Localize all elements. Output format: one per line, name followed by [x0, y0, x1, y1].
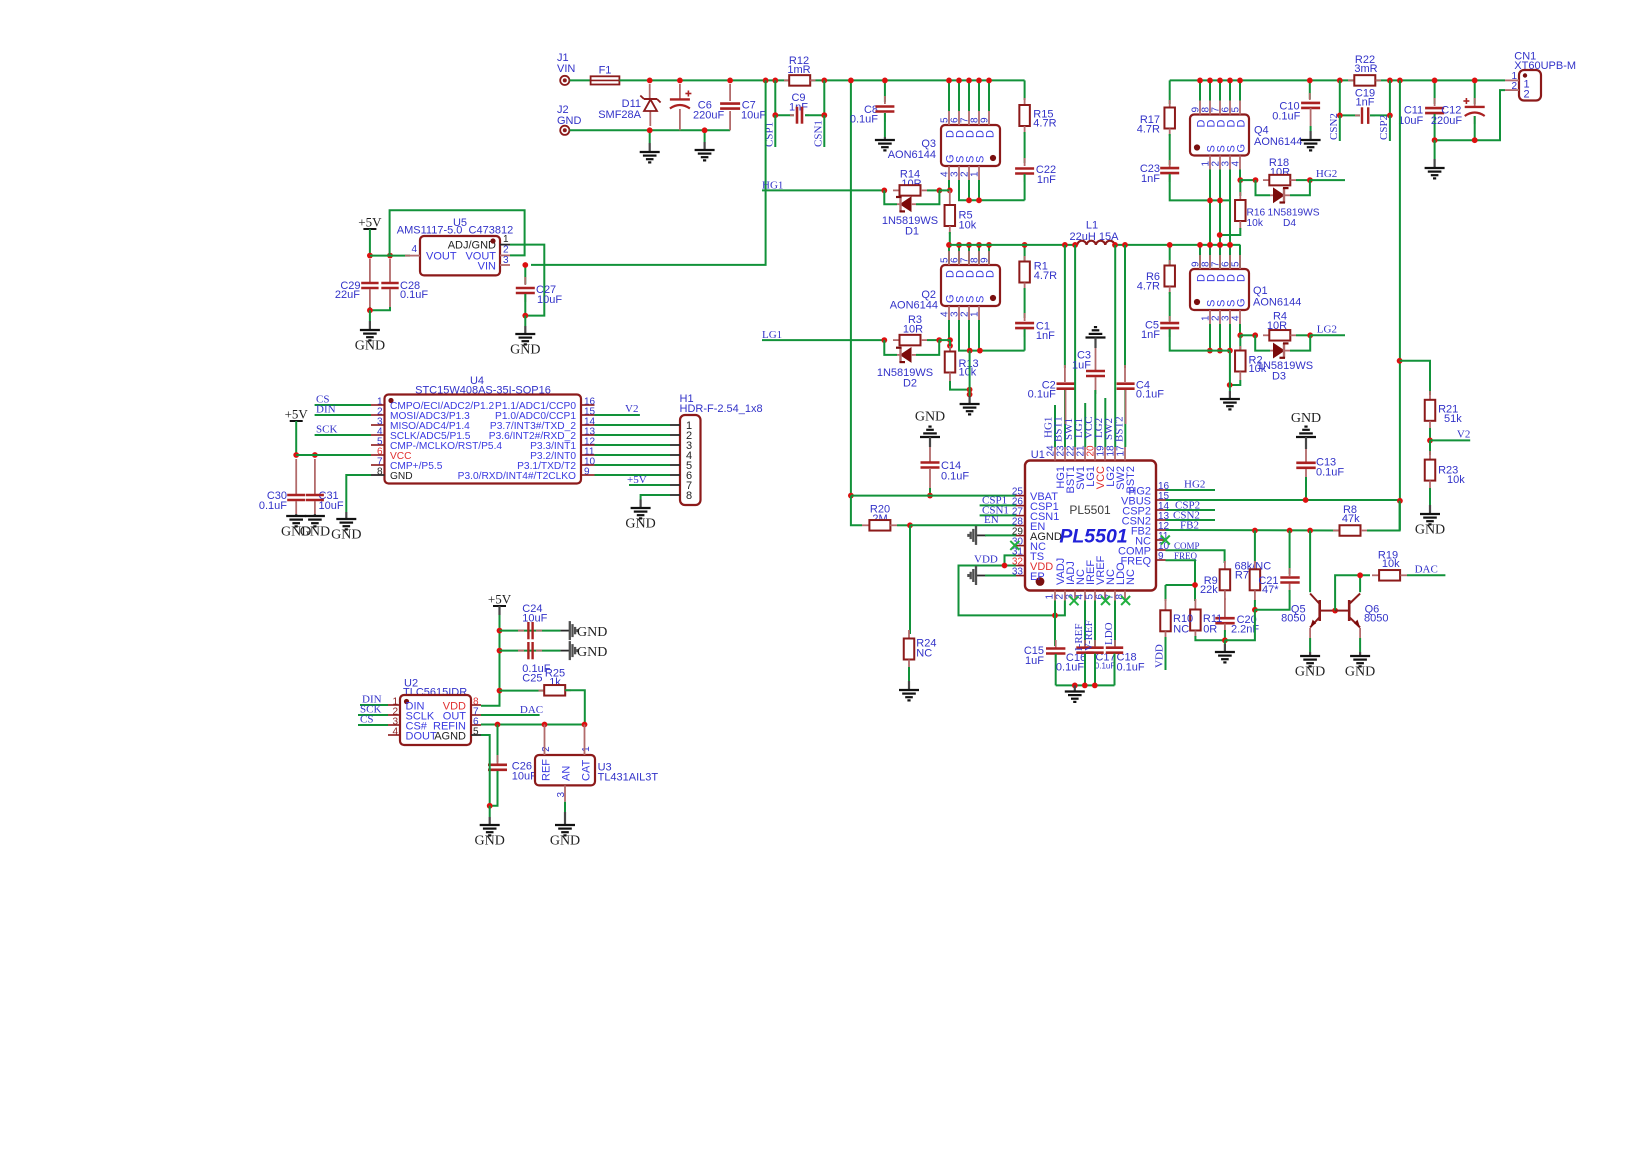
wires Q4 drains to VOUT rail	[1199, 80, 1201, 100]
svg-text:U1: U1	[1031, 449, 1045, 461]
net label CSN2 (U1)	[1166, 509, 1216, 521]
junction L1 left/C2	[1062, 242, 1068, 248]
svg-text:GND: GND	[1295, 665, 1325, 680]
wire CSP1 column	[774, 80, 776, 115]
capacitor C7 10uF	[720, 84, 766, 130]
svg-text:EP: EP	[1030, 571, 1045, 583]
svg-text:1uF: 1uF	[1025, 655, 1044, 667]
resistor R17 4.7R	[1137, 80, 1175, 136]
ground below C31	[300, 514, 330, 540]
svg-text:4.7R: 4.7R	[1033, 118, 1056, 130]
net label HG1	[762, 180, 884, 192]
junction VOUT/C12	[1472, 78, 1478, 84]
mosfet Q2 AON6144	[890, 251, 1000, 320]
svg-text:AN: AN	[561, 766, 573, 781]
mosfet Q4 AON6144	[1190, 101, 1302, 170]
wire R7 to gnd wire	[1225, 610, 1255, 641]
junction VOUT/C10	[1307, 78, 1313, 84]
svg-text:17: 17	[1116, 445, 1127, 457]
svg-text:V2: V2	[625, 403, 638, 415]
wire Q3 sources	[959, 180, 1025, 200]
svg-text:GND: GND	[1415, 523, 1445, 538]
svg-text:D: D	[985, 270, 997, 278]
nc cross pin3	[1070, 596, 1079, 605]
diode D3 1N5819WS	[1255, 335, 1313, 382]
svg-text:P3.0/RXD/INT4#/T2CLKO: P3.0/RXD/INT4#/T2CLKO	[458, 471, 576, 482]
resistor R16 10k	[1220, 180, 1246, 235]
wire Q5 collector	[1309, 531, 1311, 593]
net label EN (U1)	[984, 514, 999, 526]
capacitor C3 1uF	[1072, 348, 1105, 447]
svg-text:EN: EN	[984, 514, 999, 526]
svg-text:L1: L1	[1086, 220, 1098, 232]
svg-text:VDD: VDD	[1154, 644, 1166, 668]
wire Q6 collector	[1359, 575, 1361, 592]
capacitor C21 47*	[1255, 531, 1300, 610]
junction Q4 gate	[1237, 177, 1243, 183]
svg-text:LG2: LG2	[1317, 323, 1337, 335]
junction C12 gnd	[1472, 137, 1478, 143]
inductor L1 22uH 15A	[1070, 220, 1120, 245]
wire base to R19	[1335, 575, 1370, 610]
wire SW1 rail	[950, 244, 1077, 246]
net label CSP2 (U1)	[1166, 499, 1216, 511]
svg-text:0.1uF: 0.1uF	[1316, 467, 1344, 479]
wire SW2 column	[1114, 245, 1116, 447]
junction Q5/Q6 base	[1332, 608, 1338, 614]
svg-text:GND: GND	[331, 528, 361, 543]
capacitor C5 1nF	[1141, 292, 1230, 351]
junction VOUT/C11	[1432, 78, 1438, 84]
svg-text:GND: GND	[390, 471, 413, 482]
svg-text:1nF: 1nF	[1141, 173, 1160, 185]
svg-text:2: 2	[541, 746, 552, 752]
wire U5 VIN feed	[531, 80, 766, 265]
wire LG1 stub	[1084, 403, 1086, 447]
nc cross pin8	[1121, 596, 1130, 605]
junction VIN/C7	[727, 78, 733, 84]
junction gnd stem	[1072, 683, 1078, 689]
capacitor C15 1uF	[1024, 601, 1066, 686]
wire VDD row/loop	[959, 566, 1065, 616]
svg-text:1: 1	[581, 746, 592, 752]
svg-text:47*: 47*	[1262, 584, 1279, 596]
svg-text:CSN2: CSN2	[1328, 113, 1340, 140]
junction VBUS/R8 column	[1397, 498, 1403, 504]
wire GND bottom	[570, 129, 731, 131]
svg-text:9: 9	[980, 257, 991, 263]
junction Q2 gate/R13	[947, 343, 953, 349]
capacitor C30 0.1uF	[259, 459, 305, 514]
net label V2 (U4)	[595, 403, 640, 415]
junction AGND/C26 gnd	[487, 803, 493, 809]
wire Q3 gate	[948, 180, 950, 190]
power +5V (U2)	[481, 592, 512, 706]
junction +5V/C29	[367, 253, 373, 259]
power flag GND (C25)	[570, 641, 608, 660]
ground below C20	[1215, 640, 1235, 662]
resistor R20 2M	[862, 504, 910, 531]
capacitor C4 0.1uF	[1117, 245, 1165, 447]
resistor R18 10R	[1240, 157, 1310, 185]
wire U2 AGND to gnd	[481, 735, 490, 806]
svg-text:D4: D4	[1283, 218, 1296, 229]
resistor R11 0R	[1190, 599, 1225, 640]
net label DAC (U2 OUT)	[481, 704, 543, 716]
svg-text:1nF: 1nF	[1036, 330, 1055, 342]
wire CSN1 column	[823, 80, 825, 115]
wire VOUT row	[370, 255, 410, 257]
capacitor C20 2.2nF	[1215, 598, 1259, 640]
wire Q2 sources	[959, 320, 1025, 351]
svg-text:10uF: 10uF	[537, 294, 562, 306]
junction VBUS/C13	[1303, 497, 1309, 503]
junction GND/D11	[647, 127, 653, 133]
junction VIN/C8	[882, 78, 888, 84]
capacitor C16 0.1uF	[1056, 601, 1094, 686]
net label VDD (U1)	[974, 553, 998, 565]
net label CSN1 (U1)	[980, 504, 1016, 516]
transistor Q6 8050	[1335, 594, 1388, 628]
wire VOUT rail	[1170, 79, 1354, 81]
svg-text:1nF: 1nF	[1356, 96, 1375, 108]
svg-text:10k: 10k	[1382, 558, 1400, 570]
svg-text:S: S	[975, 156, 987, 163]
svg-text:GND: GND	[475, 834, 505, 849]
resistor R12 1mR	[784, 55, 816, 86]
junction L1 right/SW2	[1112, 242, 1118, 248]
svg-text:GND: GND	[550, 834, 580, 849]
connector J2	[557, 104, 582, 135]
svg-text:4: 4	[1231, 161, 1242, 167]
capacitor C22 1nF	[1015, 132, 1056, 200]
svg-text:1nF: 1nF	[1141, 329, 1160, 341]
svg-text:GND: GND	[577, 625, 607, 640]
svg-text:G: G	[1236, 298, 1248, 307]
svg-text:GND: GND	[557, 115, 582, 127]
svg-text:AON6144: AON6144	[1253, 297, 1301, 309]
diode D2 1N5819WS	[877, 340, 939, 389]
svg-text:10k: 10k	[959, 220, 977, 232]
IC U3 TL431AIL3T	[535, 725, 658, 802]
svg-text:REF: REF	[541, 759, 553, 781]
ground below R23	[1415, 505, 1445, 538]
junction VDD/TS	[1002, 563, 1008, 569]
junction R18/HG2	[1307, 177, 1313, 183]
wire VBUS row	[1166, 499, 1400, 501]
mosfet Q3 AON6144	[888, 111, 1000, 180]
svg-text:10uF: 10uF	[522, 613, 547, 625]
svg-text:D3: D3	[1272, 370, 1286, 382]
regulator U5 AMS1117-5.0	[397, 217, 513, 275]
junction FB2/C21	[1287, 528, 1293, 534]
svg-text:1: 1	[503, 234, 509, 245]
wire EN feed	[851, 496, 862, 526]
junction C25	[497, 648, 503, 654]
resistor R24 NC	[904, 525, 937, 681]
svg-text:0.1uF: 0.1uF	[941, 471, 969, 483]
wires Q1 sources	[1209, 324, 1211, 351]
junction C11 gnd	[1432, 137, 1438, 143]
resistor R22 3mR	[1348, 54, 1381, 85]
junction V2	[1427, 438, 1433, 444]
junction R2/gnd	[1227, 382, 1233, 388]
resistor R5 10k	[945, 190, 977, 245]
svg-text:CSN1: CSN1	[812, 120, 824, 147]
net label FB2 (U1)	[1166, 519, 1340, 531]
nc cross pin6	[1101, 596, 1110, 605]
net label CSP2	[1378, 115, 1390, 141]
ground below C29	[355, 310, 385, 353]
power +5V (U5)	[358, 215, 382, 256]
svg-text:GND: GND	[915, 409, 945, 424]
resistor R21 51k	[1400, 361, 1463, 441]
junction VOUT/CSP2	[1387, 78, 1393, 84]
svg-text:PL5501: PL5501	[1059, 526, 1127, 548]
junction SW/R1	[1022, 242, 1028, 248]
svg-text:GND: GND	[1291, 411, 1321, 426]
net label SCK (U2)	[358, 704, 388, 716]
resistor R1 4.7R	[1019, 245, 1057, 290]
svg-text:AON6144: AON6144	[888, 149, 936, 161]
net label CSN2	[1328, 113, 1340, 141]
ground below U1 caps	[1065, 685, 1085, 702]
wire FREQ bottom	[1194, 585, 1196, 601]
resistor R6 4.7R	[1137, 245, 1175, 294]
resistor R25 1k	[500, 668, 585, 725]
svg-text:0.1uF: 0.1uF	[1272, 111, 1300, 123]
svg-text:DAC: DAC	[1415, 563, 1438, 575]
svg-text:10k: 10k	[1447, 474, 1465, 486]
junction VIN/CSP1	[772, 78, 778, 84]
svg-text:0.1uF: 0.1uF	[1095, 662, 1116, 671]
svg-text:GND: GND	[625, 517, 655, 532]
wire bottom caps gnd	[1056, 684, 1115, 686]
svg-text:10uF: 10uF	[741, 110, 766, 122]
svg-text:NC: NC	[1173, 623, 1189, 635]
net label FREQ (U1)	[1166, 551, 1198, 585]
junction C31	[312, 452, 318, 458]
resistor R8 47k	[1333, 501, 1400, 536]
nc cross pin11	[1161, 536, 1170, 545]
svg-text:10uF: 10uF	[319, 500, 344, 512]
svg-text:VIN: VIN	[478, 261, 496, 273]
ground U4 pin8	[331, 475, 371, 543]
capacitor C12 220uF	[1431, 80, 1485, 140]
connector J1	[557, 52, 575, 85]
svg-text:CS: CS	[360, 714, 373, 726]
capacitor C8 0.1uF	[850, 80, 895, 137]
svg-text:BST2: BST2	[1113, 416, 1125, 442]
svg-text:Q1: Q1	[1253, 285, 1268, 297]
junction FB2/Q5	[1307, 528, 1313, 534]
svg-text:GND: GND	[300, 525, 330, 540]
net label CSP1	[763, 115, 775, 147]
diode D1 1N5819WS	[882, 190, 940, 237]
capacitor C10 0.1uF	[1272, 80, 1320, 126]
wire EN row	[910, 524, 1016, 526]
svg-text:51k: 51k	[1444, 413, 1462, 425]
junction C27 top	[522, 262, 528, 268]
ground below C11	[1425, 140, 1445, 178]
ground below Q2	[960, 396, 980, 414]
power flag AGND (pin29)	[968, 526, 1016, 545]
net label LG1	[762, 329, 884, 341]
ground above C13	[1291, 411, 1321, 449]
svg-text:PL5501: PL5501	[1069, 503, 1111, 517]
svg-text:D: D	[1236, 274, 1248, 282]
capacitor C19 1nF	[1340, 80, 1390, 124]
junction REFIN/U3 REF	[542, 722, 548, 728]
net label CS (U2)	[358, 714, 388, 726]
power flag GND (C24)	[570, 621, 608, 640]
fuse F1	[591, 65, 620, 85]
svg-text:V-REF: V-REF	[1083, 620, 1095, 651]
power flag EP (pin33)	[968, 566, 1016, 585]
svg-text:1nF: 1nF	[1037, 174, 1056, 186]
svg-text:D1: D1	[905, 226, 919, 238]
resistor R2 10k	[1230, 335, 1267, 385]
resistor R15 4.7R	[1019, 80, 1056, 134]
svg-text:V2: V2	[1457, 429, 1470, 441]
resistor R7 68k/NC	[1235, 531, 1272, 610]
svg-text:8: 8	[686, 490, 692, 502]
capacitor C23 1nF	[1140, 134, 1230, 200]
svg-text:VIN: VIN	[557, 63, 575, 75]
junction C16 gnd	[1082, 683, 1088, 689]
wires Q4 sources to SW2	[1209, 170, 1211, 245]
wire HG1 stub	[1054, 405, 1056, 447]
svg-text:5: 5	[1231, 107, 1242, 113]
junction L1 left/SW1	[1072, 242, 1078, 248]
svg-text:8050: 8050	[1281, 613, 1305, 625]
junction R16/SW2 column	[1217, 232, 1223, 238]
wire Q4 gate	[1239, 170, 1241, 181]
svg-text:+5V: +5V	[488, 592, 512, 607]
svg-text:TL431AIL3T: TL431AIL3T	[598, 771, 659, 783]
wire Q1 gate	[1239, 324, 1241, 335]
svg-text:DIN: DIN	[316, 403, 336, 415]
capacitor C27 10uF	[516, 265, 563, 316]
svg-text:4.7R: 4.7R	[1034, 270, 1057, 282]
junction VIN/VBAT	[848, 78, 854, 84]
transistor Q5 8050	[1281, 594, 1335, 628]
junction VOUT/CSN2	[1337, 78, 1343, 84]
junction VBAT/C14	[927, 493, 933, 499]
wire TS tie	[1005, 555, 1017, 565]
junction S column gnd	[967, 392, 973, 398]
svg-text:10k: 10k	[1247, 218, 1264, 229]
svg-text:0.1uF: 0.1uF	[1117, 662, 1145, 674]
svg-text:HDR-F-2.54_1x8: HDR-F-2.54_1x8	[680, 403, 763, 415]
svg-text:0.1uF: 0.1uF	[850, 114, 878, 126]
ground below U3	[550, 802, 580, 849]
svg-text:1nF: 1nF	[789, 102, 808, 114]
svg-text:220uF: 220uF	[1431, 115, 1462, 127]
svg-text:0.1uF: 0.1uF	[1028, 389, 1056, 401]
junction GND stem	[702, 127, 708, 133]
svg-text:S: S	[975, 296, 987, 303]
junction VOUT/VBUS column	[1397, 78, 1403, 84]
net label CSP1 (U1)	[980, 494, 1016, 506]
resistor R10 NC	[1160, 585, 1193, 670]
svg-text:0.1uF: 0.1uF	[1136, 389, 1164, 401]
svg-text:10k: 10k	[1249, 363, 1267, 375]
wire VIN rail	[619, 79, 789, 81]
capacitor C6 220uF	[670, 84, 725, 130]
IC U4 STC15W408AS	[371, 375, 596, 484]
svg-text:GND: GND	[577, 645, 607, 660]
wire H1 pin8 to gnd	[641, 495, 670, 500]
svg-text:AON6144: AON6144	[1254, 136, 1302, 148]
junction C9 left	[772, 112, 778, 118]
junction VIN/U5 feed	[763, 78, 769, 84]
net label DIN (U2)	[360, 694, 388, 706]
wire REFIN row	[481, 724, 585, 726]
svg-text:CAT: CAT	[581, 760, 593, 781]
ground below C8	[875, 137, 895, 150]
junction REFIN/R25	[582, 722, 588, 728]
wire VBUS sense column	[1399, 80, 1401, 530]
svg-text:+5V: +5V	[358, 215, 382, 230]
wire VBAT row	[851, 495, 1016, 497]
ground below C27	[510, 316, 540, 358]
junction C24	[497, 628, 503, 634]
svg-text:BST2: BST2	[1125, 466, 1137, 494]
diode D4 1N5819WS	[1247, 180, 1320, 229]
svg-text:0.1uF: 0.1uF	[400, 289, 428, 301]
svg-text:1: 1	[970, 311, 981, 317]
net label DIN (U4)	[315, 403, 371, 415]
junction +5V/C30	[293, 452, 299, 458]
junction FB2/R7	[1252, 528, 1258, 534]
wire LG2 stub	[1104, 398, 1106, 447]
junction C29 gnd	[367, 307, 373, 313]
capacitor C9 1nF	[775, 92, 824, 124]
junction VIN/D11	[647, 78, 653, 84]
wire VBAT column	[850, 80, 852, 495]
svg-text:8050: 8050	[1364, 613, 1388, 625]
svg-text:SCK: SCK	[316, 423, 337, 435]
capacitor C13 0.1uF	[1296, 449, 1344, 500]
resistor R23 10k	[1425, 440, 1465, 505]
wires Q3 drains to VIN rail	[948, 80, 950, 111]
svg-text:10R: 10R	[903, 324, 923, 336]
svg-text:22uF: 22uF	[335, 289, 360, 301]
svg-text:2: 2	[503, 245, 509, 256]
net label CSN1	[812, 115, 824, 147]
IC U2 TLC5615IDR	[388, 678, 481, 746]
nc cross pin30	[1010, 541, 1019, 550]
junction R3/Q2 gate	[947, 337, 953, 343]
mosfet Q1 AON6144	[1190, 255, 1301, 324]
capacitor C24 10uF	[500, 603, 570, 639]
svg-text:HG2: HG2	[1184, 478, 1205, 490]
ground below R24	[899, 681, 919, 700]
junction C27 bottom	[522, 313, 528, 319]
svg-text:D: D	[1236, 120, 1248, 128]
ground above C14	[915, 409, 945, 447]
junction REFIN/C26	[495, 722, 501, 728]
svg-text:1N5819WS: 1N5819WS	[1268, 208, 1320, 219]
wire J1 to F1	[570, 79, 591, 81]
wire Q6 emitter to gnd	[1345, 628, 1375, 680]
svg-text:Q4: Q4	[1254, 125, 1269, 137]
ground below D11	[640, 133, 660, 162]
capacitor C25 0.1uF	[500, 642, 570, 684]
wire U5 VOUT loop	[390, 210, 525, 255]
junction R13/gnd	[967, 387, 973, 393]
